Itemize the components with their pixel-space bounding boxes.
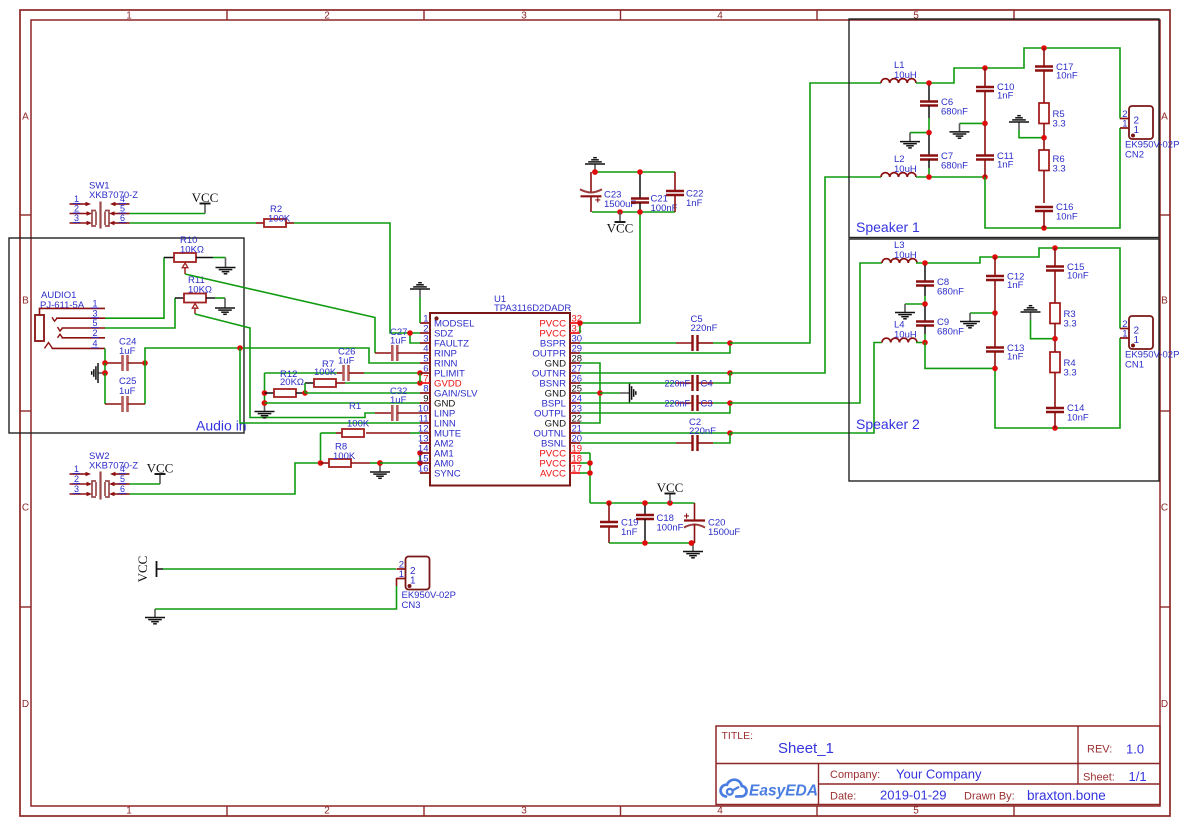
U1 pin 8 GAIN/SLV — [420, 384, 478, 400]
U1 pin 25 GND — [545, 384, 582, 400]
VCC (main) — [607, 212, 634, 236]
junction dot (C8/C9) — [922, 301, 928, 307]
wire VCC to CN3 pin2 — [163, 568, 396, 570]
resistor R3 3.3 — [1050, 303, 1077, 339]
sheet title Sheet_1 — [778, 740, 834, 757]
svg-text:100K: 100K — [333, 451, 356, 462]
ground (C6/C7) — [900, 133, 929, 148]
svg-text:1nF: 1nF — [1007, 352, 1024, 363]
svg-text:6: 6 — [120, 213, 125, 223]
U1 pin 3 FAULTZ — [420, 334, 469, 350]
svg-text:1500uF: 1500uF — [604, 199, 636, 210]
wire L4 to C13 node — [916, 340, 995, 369]
AVCC rail top — [590, 500, 695, 506]
capacitor C23 1500uF polarized — [580, 172, 636, 212]
wire OUTPR to L1 — [580, 83, 881, 353]
svg-text:10nF: 10nF — [1067, 271, 1089, 282]
svg-text:VCC: VCC — [192, 190, 219, 205]
svg-text:1: 1 — [126, 11, 132, 22]
svg-text:C3: C3 — [701, 399, 713, 410]
svg-text:100K: 100K — [268, 214, 291, 225]
wire GND pin9 — [265, 402, 421, 404]
ground (R11) — [215, 298, 235, 314]
capacitor C18 100nF — [636, 505, 684, 543]
svg-text:1500uF: 1500uF — [708, 527, 740, 538]
svg-text:+: + — [595, 196, 601, 207]
Sheet label and value — [1083, 769, 1147, 784]
svg-text:CN3: CN3 — [402, 600, 421, 611]
svg-text:4: 4 — [120, 194, 125, 204]
junction dot (C10/C11) — [982, 121, 988, 127]
ground (C12/C13) — [960, 313, 995, 328]
connector CN2 EK950V-02P — [1120, 106, 1179, 161]
svg-text:1: 1 — [92, 299, 97, 309]
AUDIO1 pin 1 — [40, 299, 106, 316]
svg-text:10KΩ: 10KΩ — [180, 245, 204, 256]
svg-text:3.3: 3.3 — [1064, 368, 1077, 379]
svg-text:3: 3 — [92, 308, 97, 318]
svg-text:2: 2 — [74, 204, 79, 214]
wire SW2 pin5 to VCC — [130, 483, 161, 485]
svg-text:100K: 100K — [314, 367, 337, 378]
svg-text:20KΩ: 20KΩ — [280, 377, 304, 388]
AUDIO1 pin 5 — [58, 318, 106, 331]
junction dots (PLIMIT/GVDD pins) — [417, 370, 423, 386]
svg-text:XKB7070-Z: XKB7070-Z — [89, 461, 138, 472]
svg-text:16: 16 — [418, 464, 429, 475]
svg-text:1.0: 1.0 — [1126, 742, 1144, 757]
svg-text:A: A — [1161, 112, 1168, 123]
inductor L1 10uH — [881, 60, 917, 83]
wire speaker1 bottom rail — [985, 128, 1120, 231]
Company label and value — [830, 767, 982, 782]
capacitor C19 1nF — [600, 503, 638, 543]
wire OUTNR to L2 — [580, 177, 881, 376]
svg-text:1uF: 1uF — [338, 356, 355, 367]
svg-text:C: C — [1161, 503, 1168, 514]
capacitor C11 1nF — [976, 126, 1014, 177]
wire R11 to ground — [206, 297, 225, 299]
U1 pin 29 OUTPR — [532, 344, 582, 360]
REV label and value — [1087, 742, 1144, 757]
U1 pin 7 GVDD — [420, 374, 462, 390]
svg-text:4: 4 — [717, 806, 723, 817]
svg-text:A: A — [22, 112, 29, 123]
wire GAIN/SLV — [305, 392, 420, 394]
capacitor C17 10nF — [1035, 48, 1078, 103]
svg-text:D: D — [22, 699, 29, 710]
capacitor C2 220nF (BSNL) — [580, 417, 730, 451]
resistor R5 3.3 — [1039, 103, 1066, 138]
svg-text:Speaker 1: Speaker 1 — [856, 219, 920, 235]
wire PVCC/AVCC pins to rail — [580, 453, 593, 503]
svg-text:C: C — [22, 503, 29, 514]
U1 pin 6 PLIMIT — [420, 364, 465, 380]
capacitor C10 1nF — [976, 68, 1014, 123]
svg-text:CN2: CN2 — [1125, 150, 1144, 161]
U1 pin 22 GND — [545, 414, 582, 430]
U1 pin 30 BSPR — [540, 334, 582, 350]
capacitor C22 1nF — [666, 172, 703, 212]
wire R10 wiper to C27 (RINP) — [185, 274, 375, 353]
capacitor C16 10nF — [1035, 202, 1078, 228]
svg-text:VCC: VCC — [147, 460, 174, 475]
U1 pin 10 LINP — [418, 404, 455, 420]
svg-text:Sheet_1: Sheet_1 — [778, 740, 834, 757]
U1 pin 5 RINN — [420, 354, 458, 370]
svg-text:VCC: VCC — [135, 556, 150, 583]
svg-text:1nF: 1nF — [997, 160, 1014, 171]
U1 pin 27 OUTNR — [532, 364, 582, 380]
wire SW2 pin6 to R8 — [130, 460, 324, 494]
VCC (SW2) — [147, 460, 174, 484]
Speaker 1 label — [856, 219, 920, 235]
svg-text:1: 1 — [399, 569, 404, 580]
svg-text:2: 2 — [74, 474, 79, 484]
capacitor C26 1uF (PLIMIT) — [265, 347, 421, 382]
U1 pin 9 GND — [420, 394, 455, 410]
resistor R7 100K (GVDD) — [305, 359, 420, 393]
wire L1 node — [916, 68, 985, 86]
svg-text:680nF: 680nF — [941, 161, 968, 172]
svg-text:2: 2 — [324, 806, 330, 817]
svg-text:C4: C4 — [701, 379, 713, 390]
svg-text:1nF: 1nF — [621, 527, 638, 538]
wire SW1 pin6 to R2 — [130, 222, 257, 224]
svg-text:10nF: 10nF — [1056, 212, 1078, 223]
svg-text:680nF: 680nF — [941, 107, 968, 118]
AUDIO1 pin 3 — [52, 308, 105, 321]
svg-text:3.3: 3.3 — [1053, 119, 1066, 130]
svg-text:VCC: VCC — [607, 221, 634, 236]
capacitor C24 1uF — [105, 337, 145, 372]
svg-text:B: B — [1161, 296, 1168, 307]
junction dot (C6/C7) — [926, 130, 932, 136]
ground (MODSEL) — [410, 283, 430, 323]
capacitor C27 1uF (RINP) — [375, 327, 420, 361]
title block frame — [716, 726, 1160, 805]
svg-text:5: 5 — [913, 806, 919, 817]
U1 pin 21 OUTNL — [533, 424, 582, 440]
svg-text:AVCC: AVCC — [540, 469, 566, 480]
Audio in label — [196, 418, 247, 434]
svg-text:1: 1 — [1122, 119, 1127, 130]
svg-text:TITLE:: TITLE: — [722, 730, 754, 742]
ground (R10) — [216, 258, 236, 274]
wire L3 node — [916, 257, 995, 266]
svg-text:1nF: 1nF — [1007, 280, 1024, 291]
wire to LINN — [240, 348, 420, 423]
wire R11 wiper to C32 (LINP) — [195, 314, 375, 418]
U1 pin 23 OUTPL — [534, 404, 582, 420]
svg-text:1uF: 1uF — [119, 386, 136, 397]
capacitor C25 1uF — [105, 363, 145, 412]
svg-text:1uF: 1uF — [390, 336, 407, 347]
ground (VCC cluster) — [585, 158, 605, 175]
svg-text:Audio in: Audio in — [196, 418, 247, 434]
resistor R12 20K (GAIN) — [265, 369, 308, 397]
U1 pin 14 AM1 — [418, 444, 454, 460]
svg-text:CN1: CN1 — [1125, 360, 1144, 371]
svg-text:220nF: 220nF — [664, 399, 690, 409]
svg-text:TPA3116D2DADR: TPA3116D2DADR — [494, 303, 571, 314]
capacitor C9 680nF — [916, 306, 964, 342]
svg-text:1: 1 — [126, 806, 132, 817]
U1 pin 11 LINN — [419, 414, 456, 430]
svg-text:680nF: 680nF — [937, 287, 964, 298]
U1 pin 19 PVCC — [539, 444, 582, 460]
svg-text:220nF: 220nF — [689, 426, 716, 437]
svg-text:100nF: 100nF — [651, 203, 678, 214]
svg-text:6: 6 — [120, 484, 125, 494]
U1 pin 4 RINP — [420, 344, 457, 360]
svg-text:100K: 100K — [347, 419, 370, 430]
wire OUTPL to L3 — [580, 263, 882, 413]
svg-text:R1: R1 — [349, 401, 361, 412]
svg-text:680nF: 680nF — [937, 327, 964, 338]
U1 pin 17 AVCC — [540, 464, 582, 480]
svg-text:1uF: 1uF — [390, 395, 407, 406]
capacitor C21 100nF — [631, 174, 678, 214]
audio in boundary box — [9, 238, 244, 433]
svg-text:10uH: 10uH — [894, 70, 917, 81]
svg-text:1/1: 1/1 — [1129, 769, 1147, 784]
junction dot (LINN tap) — [237, 345, 243, 351]
capacitor C3 220nF (BSPL) — [580, 395, 730, 411]
svg-text:10uH: 10uH — [894, 164, 917, 175]
svg-text:10uH: 10uH — [894, 330, 917, 341]
inductor L2 10uH — [881, 154, 917, 177]
U1 pin 24 BSPL — [541, 394, 582, 410]
svg-text:5: 5 — [120, 204, 125, 214]
svg-text:220nF: 220nF — [664, 379, 690, 389]
svg-text:4: 4 — [717, 11, 723, 22]
AVCC rail bottom — [609, 540, 695, 546]
capacitor C13 1nF — [986, 315, 1024, 368]
svg-text:REV:: REV: — [1087, 744, 1112, 756]
capacitor C15 10nF — [1046, 248, 1089, 303]
U1 pin 32 PVCC — [539, 314, 582, 330]
wire SW1 pin5 to VCC — [130, 213, 206, 215]
ground (R5/R6) — [1009, 116, 1047, 141]
U1 pin 20 BSNL — [541, 434, 582, 450]
U1 pin 15 AM0 — [418, 454, 454, 470]
wire OUTNL to L4 — [580, 343, 882, 436]
ground (C10/C11) — [950, 123, 986, 138]
svg-text:100nF: 100nF — [657, 523, 684, 534]
ground (C24 left) — [92, 363, 108, 383]
svg-text:PJ-611-5A: PJ-611-5A — [40, 300, 85, 311]
AUDIO1 labels — [40, 290, 85, 311]
svg-text:220nF: 220nF — [691, 323, 718, 334]
inductor L3 10uH — [882, 240, 917, 263]
svg-text:3: 3 — [521, 806, 527, 817]
svg-text:1: 1 — [74, 464, 79, 474]
wire R10 to ground — [196, 257, 226, 259]
capacitor C5 220nF (BSPR) — [580, 314, 730, 351]
svg-text:D: D — [1161, 699, 1168, 710]
svg-text:4: 4 — [120, 464, 125, 474]
speaker 1 boundary box — [849, 19, 1159, 238]
resistor R4 3.3 — [1050, 341, 1077, 408]
svg-text:+: + — [684, 512, 690, 523]
border column ticks — [227, 10, 1014, 816]
wire L2 row — [916, 174, 988, 180]
U1 pin 13 AM2 — [418, 434, 454, 450]
junction dot (R8 gnd) — [377, 460, 383, 466]
svg-text:10uH: 10uH — [894, 250, 917, 261]
resistor R8 100K (AM0) — [321, 442, 381, 468]
capacitor C4 220nF (BSNR) — [580, 373, 730, 391]
wire speaker1 top — [982, 45, 1120, 118]
border row ticks — [20, 215, 1170, 607]
svg-text:4: 4 — [92, 338, 97, 348]
potentiometer R10 10K — [174, 235, 204, 274]
U1 pin 31 PVCC — [539, 324, 582, 340]
ground (R12/GND pin) — [255, 400, 275, 418]
svg-text:3.3: 3.3 — [1064, 319, 1077, 330]
VCC (SW1) — [192, 190, 219, 214]
svg-text:10nF: 10nF — [1067, 413, 1089, 424]
svg-text:3.3: 3.3 — [1053, 164, 1066, 175]
connector AUDIO1 PJ-611-5A body — [35, 315, 44, 341]
ground (C8/C9) — [895, 304, 925, 319]
svg-text:5: 5 — [913, 11, 919, 22]
svg-text:XKB7070-Z: XKB7070-Z — [89, 190, 138, 201]
svg-text:VCC: VCC — [657, 480, 684, 495]
svg-text:3: 3 — [74, 213, 79, 223]
AUDIO1 pin 2 — [58, 328, 106, 338]
resistor R2 100K — [256, 204, 294, 227]
capacitor C7 680nF — [920, 135, 968, 177]
wire R2 to SDZ and FAULTZ — [294, 223, 420, 343]
svg-text:1: 1 — [74, 194, 79, 204]
svg-text:10KΩ: 10KΩ — [188, 285, 212, 296]
switch SW2 XKB7070-Z — [70, 451, 139, 500]
IC U1 TPA3116D2DADR body — [430, 294, 571, 486]
U1 pin 12 MUTE — [418, 424, 461, 440]
ground (AVCC) — [683, 540, 703, 558]
svg-text:Date:: Date: — [830, 791, 856, 803]
svg-text:10nF: 10nF — [1056, 71, 1078, 82]
svg-text:3: 3 — [74, 484, 79, 494]
svg-text:5: 5 — [92, 318, 97, 328]
wire R1 to R8 node — [320, 433, 322, 463]
EasyEDA logo — [721, 780, 818, 800]
AUDIO1 pin 4 — [45, 338, 106, 348]
connector CN3 EK950V-02P — [397, 557, 456, 612]
ground (R3/R4) — [1021, 306, 1058, 342]
speaker 2 boundary box — [849, 239, 1159, 481]
wire jack pin3 to R10 — [105, 258, 174, 319]
resistor R1 100K (MUTE) — [321, 401, 421, 437]
svg-text:2: 2 — [92, 328, 97, 338]
VCC rail bottom — [592, 209, 675, 215]
U1 pin 26 BSNR — [539, 374, 582, 390]
wire C24 right to RINN — [145, 348, 420, 363]
potentiometer R11 10K — [184, 275, 212, 314]
wire PVCC to VCC cluster — [577, 212, 640, 333]
wire CN3 pin1 to ground — [155, 578, 397, 609]
svg-text:1nF: 1nF — [997, 91, 1014, 102]
VCC (AVCC) — [657, 480, 684, 503]
resistor R6 3.3 — [1039, 140, 1066, 203]
svg-text:B: B — [22, 296, 29, 307]
capacitor C14 10nF — [1046, 403, 1089, 428]
svg-text:braxton.bone: braxton.bone — [1027, 788, 1106, 803]
svg-text:Speaker 2: Speaker 2 — [856, 416, 920, 432]
svg-text:Your Company: Your Company — [896, 767, 982, 782]
Speaker 2 label — [856, 416, 920, 432]
capacitor C12 1nF — [986, 257, 1024, 313]
junction dot (C12/C13) — [992, 310, 998, 316]
TITLE label — [722, 730, 754, 742]
border column numbers — [126, 11, 919, 817]
connector CN1 EK950V-02P — [1120, 316, 1179, 371]
svg-text:EasyEDA: EasyEDA — [749, 783, 818, 800]
wire GND pins 28/25/22 — [580, 363, 603, 423]
svg-text:Sheet:: Sheet: — [1083, 772, 1115, 784]
svg-text:1uF: 1uF — [119, 346, 136, 357]
U1 pin 2 SDZ — [420, 324, 453, 340]
svg-text:Company:: Company: — [830, 769, 880, 781]
svg-text:2019-01-29: 2019-01-29 — [880, 788, 947, 803]
wire PLIMIT ground tie — [262, 373, 268, 406]
U1 pin 1 MODSEL — [420, 314, 475, 330]
svg-text:SYNC: SYNC — [434, 469, 461, 480]
wire speaker2 bottom rail — [992, 338, 1120, 431]
border row letters — [22, 112, 1168, 711]
capacitor C20 1500uF polarized — [684, 503, 741, 543]
ground (CN3) — [145, 609, 165, 624]
U1 pin 16 SYNC — [418, 464, 461, 480]
U1 pin 18 PVCC — [539, 454, 582, 470]
wire jack pin4 down — [104, 348, 106, 363]
VCC (CN3, rotated) — [135, 556, 163, 583]
capacitor C32 1uF (LINP) — [375, 386, 420, 421]
ground (R8) — [370, 460, 390, 478]
svg-text:3: 3 — [521, 11, 527, 22]
U1 pin 28 GND — [545, 354, 582, 370]
svg-text:2: 2 — [324, 11, 330, 22]
wire AM0/AM1 — [380, 450, 423, 466]
junction dots (C24) — [102, 360, 148, 376]
capacitor C8 680nF — [916, 265, 964, 304]
Date row — [830, 788, 1106, 804]
svg-text:5: 5 — [120, 474, 125, 484]
wire jack pin5 to R11 — [105, 298, 184, 328]
wire speaker2 top — [992, 245, 1120, 328]
svg-text:1: 1 — [1122, 329, 1127, 340]
capacitor C6 680nF — [920, 85, 968, 132]
svg-text:Drawn By:: Drawn By: — [964, 791, 1015, 803]
switch SW1 XKB7070-Z — [70, 181, 139, 229]
inductor L4 10uH — [882, 320, 917, 343]
ground (U1 GND) — [600, 383, 636, 403]
VCC rail top — [592, 169, 675, 175]
svg-text:1nF: 1nF — [686, 198, 703, 209]
